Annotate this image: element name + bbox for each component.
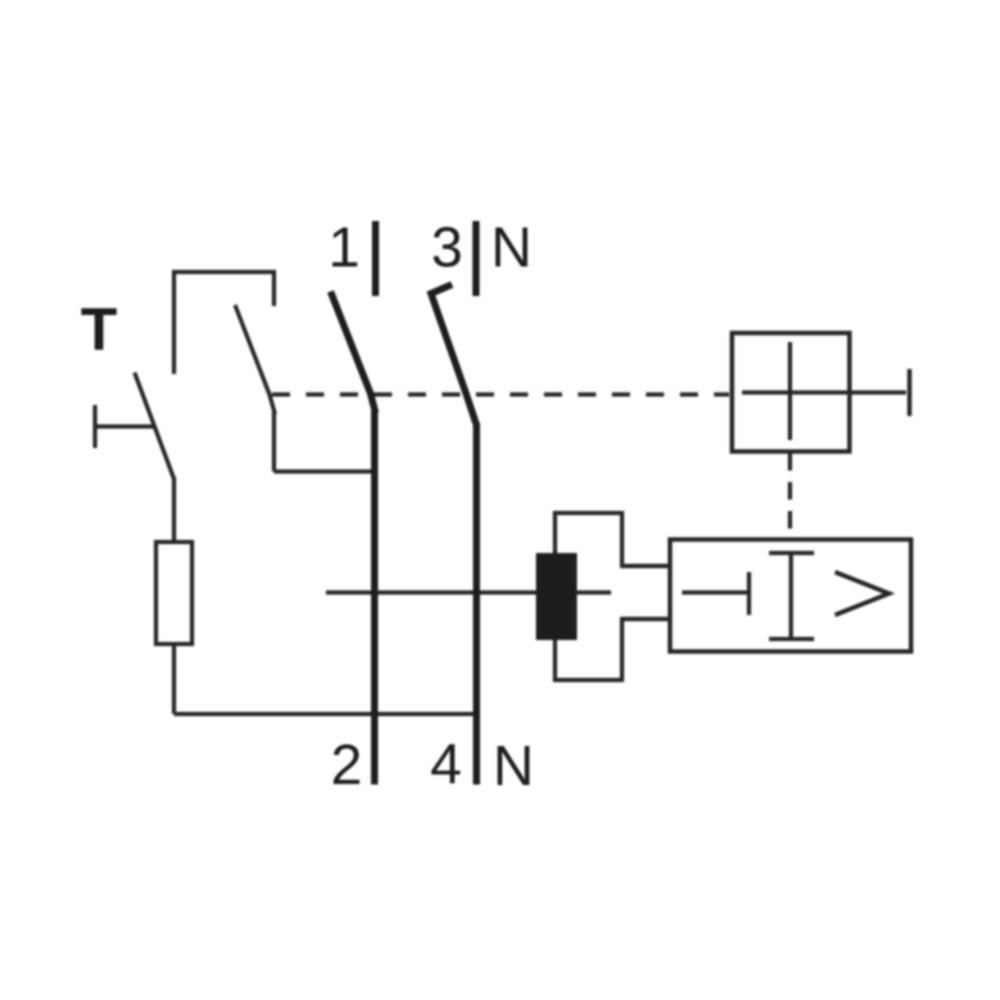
svg-text:N: N xyxy=(491,216,532,280)
svg-text:3: 3 xyxy=(431,216,463,280)
svg-text:T: T xyxy=(81,296,118,363)
svg-text:2: 2 xyxy=(331,733,363,797)
svg-text:N: N xyxy=(493,734,534,798)
svg-text:1: 1 xyxy=(328,216,360,280)
svg-text:4: 4 xyxy=(430,733,462,797)
